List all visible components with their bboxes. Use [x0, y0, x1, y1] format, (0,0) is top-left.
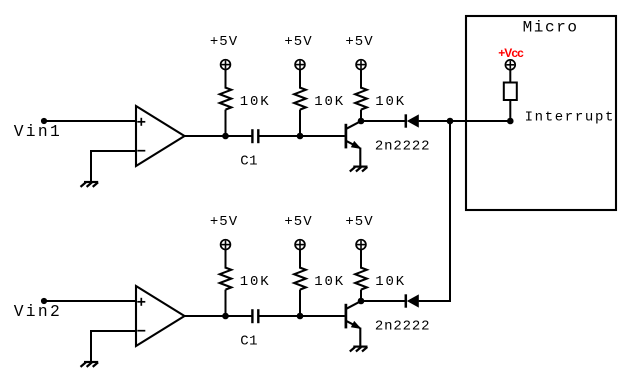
wire D2 anode up to junction (vertical + horizontal): [419, 121, 450, 301]
resistor R1c 10K: [355, 88, 367, 110]
wire +Vcc to internal pull-up resistor: [509, 69, 511, 82]
wire +5V to resistor top: [299, 249, 301, 268]
resistor R2b 10K: [294, 268, 306, 290]
svg-text:+5V: +5V: [210, 214, 238, 230]
microcontroller box "Micro": [466, 16, 616, 210]
transistor Q2 2n2222: [346, 301, 361, 346]
node Interrupt pin node: [507, 118, 514, 125]
wire resistor bottom to output node: [225, 110, 227, 136]
wire inverting input down to ground: [90, 330, 92, 362]
wire resistor bottom to output node: [225, 290, 227, 316]
ground ground at Q2 emitter: [350, 347, 368, 352]
node junction collector / R2c: [358, 298, 365, 305]
svg-text:10K: 10K: [314, 274, 345, 290]
svg-text:10K: 10K: [240, 94, 271, 110]
resistor R2c 10K: [355, 268, 367, 290]
wire +5V to resistor top: [360, 69, 362, 88]
wire Vin2 to op-amp noninverting input: [44, 300, 136, 302]
svg-text:C1: C1: [240, 154, 258, 170]
op-amp U2: [136, 286, 185, 346]
svg-text:Vin2: Vin2: [14, 302, 62, 321]
power +5V pull-up R1c: [356, 60, 366, 70]
svg-text:+5V: +5V: [345, 34, 373, 50]
wire D1 anode to Interrupt pin: [419, 120, 510, 122]
power +Vcc symbol: [505, 60, 515, 70]
power +5V pull-up R1a: [221, 60, 231, 70]
wire internal resistor to Interrupt node: [509, 100, 511, 121]
capacitor C1 (top channel): [252, 129, 258, 143]
wire op-amp U2 output to C1: [185, 315, 253, 317]
svg-text:Micro: Micro: [523, 18, 579, 36]
resistor R2a 10K: [220, 268, 232, 290]
svg-text:Vin1: Vin1: [14, 122, 62, 141]
svg-text:+5V: +5V: [345, 214, 373, 230]
ground ground at Q1 emitter: [350, 167, 368, 172]
svg-text:+5V: +5V: [284, 34, 312, 50]
wire op-amp inverting input horizontal: [91, 150, 136, 152]
svg-text:+Vcc: +Vcc: [498, 46, 524, 60]
wire collector node to diode D2: [361, 300, 406, 302]
node Vin1 input terminal: [41, 118, 47, 124]
svg-text:10K: 10K: [375, 274, 406, 290]
svg-text:Interrupt: Interrupt: [525, 109, 615, 125]
diode D2 (cathode toward transistor): [406, 294, 419, 307]
svg-text:C1: C1: [240, 334, 258, 350]
node junction op-amp output / R2a: [222, 313, 229, 320]
ground ground at op-amp U1 inverting input: [81, 182, 99, 187]
wire C1 to transistor base: [258, 315, 344, 317]
wire inverting input down to ground: [90, 150, 92, 182]
resistor R1a 10K: [220, 88, 232, 110]
svg-text:10K: 10K: [314, 94, 345, 110]
resistor R1b 10K: [294, 88, 306, 110]
wire op-amp U1 output to C1: [185, 135, 253, 137]
svg-text:+5V: +5V: [210, 34, 238, 50]
wire resistor bottom to base node: [299, 290, 301, 316]
svg-text:2n2222: 2n2222: [375, 318, 431, 334]
power +5V pull-up R2b: [295, 240, 305, 250]
internal pull-up resistor (box symbol) inside Micro: [504, 83, 517, 101]
wire +5V to resistor top: [360, 249, 362, 268]
wire collector node to diode D1: [361, 120, 406, 122]
op-amp U1: [136, 106, 185, 166]
diode D1 (cathode toward transistor): [406, 114, 419, 127]
power +5V pull-up R1b: [295, 60, 305, 70]
power +5V pull-up R2a: [221, 240, 231, 250]
svg-text:10K: 10K: [375, 94, 406, 110]
power +5V pull-up R2c: [356, 240, 366, 250]
wire Vin1 to op-amp noninverting input: [44, 120, 136, 122]
capacitor C1 (bottom channel): [252, 309, 258, 323]
node junction C1 / R2b / base: [297, 313, 304, 320]
node junction op-amp output / R1a: [222, 133, 229, 140]
svg-text:2n2222: 2n2222: [375, 138, 431, 154]
wire op-amp inverting input horizontal: [91, 330, 136, 332]
wire resistor bottom to base node: [299, 110, 301, 136]
wire +5V to resistor top: [225, 69, 227, 88]
wire +5V to resistor top: [225, 249, 227, 268]
node Vin2 input terminal: [41, 298, 47, 304]
node junction of D1 and D2 outputs: [447, 118, 454, 125]
svg-text:10K: 10K: [240, 274, 271, 290]
svg-text:+5V: +5V: [284, 214, 312, 230]
wire resistor bottom to collector node: [360, 110, 362, 121]
ground ground at op-amp U2 inverting input: [81, 362, 99, 367]
wire +5V to resistor top: [299, 69, 301, 88]
node junction C1 / R1b / base: [297, 133, 304, 140]
transistor Q1 2n2222: [346, 121, 361, 166]
wire resistor bottom to collector node: [360, 290, 362, 301]
node junction collector / R1c: [358, 118, 365, 125]
wire C1 to transistor base: [258, 135, 344, 137]
